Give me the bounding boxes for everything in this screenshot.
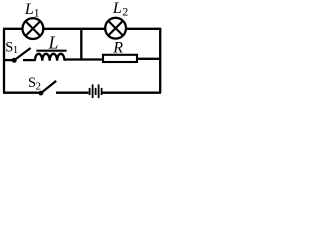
inductor L (coil with core bar) xyxy=(35,51,67,61)
label S1 xyxy=(5,40,18,57)
wire middle rail: inductor to resistor R xyxy=(64,58,103,60)
wire top middle (L1 to L2) xyxy=(43,28,105,30)
svg-text:R: R xyxy=(112,40,123,57)
background xyxy=(0,0,165,105)
switch S1 xyxy=(12,48,31,63)
lamp L2 xyxy=(105,18,126,39)
label L2 xyxy=(112,0,128,19)
wire right vertical xyxy=(159,29,161,93)
wire middle vertical (node between L1 and L2 down to middle rail) xyxy=(80,28,82,61)
wire middle rail: switch S1 to inductor L xyxy=(23,59,36,61)
wire top left (to lamp L1) xyxy=(3,28,23,30)
svg-text:2: 2 xyxy=(36,81,42,93)
switch S2 xyxy=(39,81,57,96)
resistor R xyxy=(103,55,137,62)
wire bottom middle (switch S2 to battery) xyxy=(56,92,89,94)
label S2 xyxy=(28,75,41,93)
battery xyxy=(90,84,102,98)
wire bottom right (battery to corner) xyxy=(102,92,161,94)
svg-text:L: L xyxy=(24,1,34,18)
label L1 xyxy=(24,1,40,20)
svg-text:1: 1 xyxy=(34,5,40,19)
svg-text:L: L xyxy=(48,33,59,53)
wire middle rail: resistor to right vertical xyxy=(138,58,161,60)
wire left vertical xyxy=(3,29,5,93)
lamp L1 xyxy=(23,18,44,39)
wire middle rail: left vertical to switch S1 xyxy=(3,59,13,61)
svg-text:2: 2 xyxy=(122,5,128,19)
svg-text:1: 1 xyxy=(13,44,19,56)
wire top right (L2 to corner) xyxy=(126,28,161,30)
wire bottom left (corner to switch S2) xyxy=(3,92,39,94)
svg-text:L: L xyxy=(112,0,122,17)
